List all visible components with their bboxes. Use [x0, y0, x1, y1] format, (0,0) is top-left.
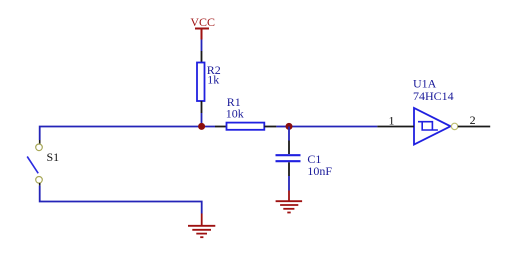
svg-text:S1: S1	[47, 150, 60, 164]
svg-text:VCC: VCC	[190, 15, 215, 29]
svg-text:1k: 1k	[207, 73, 219, 87]
wire switch top to node A	[40, 127, 215, 141]
svg-text:10k: 10k	[226, 106, 244, 120]
svg-text:1: 1	[389, 113, 395, 127]
svg-text:2: 2	[470, 113, 476, 127]
wire VCC to R2 pin	[201, 40, 203, 52]
svg-text:74HC14: 74HC14	[413, 89, 454, 103]
wire R2 to node A	[201, 113, 203, 127]
op-amp U1A (74HC14 schmitt inverter)	[414, 108, 458, 145]
wire R1 to node B	[276, 126, 289, 128]
resistor R2	[197, 51, 205, 113]
wire switch bottom to ground	[40, 186, 202, 214]
power symbol VCC	[190, 15, 215, 40]
wire node B to U1A input pin	[289, 126, 377, 128]
svg-text:10nF: 10nF	[307, 164, 332, 178]
wire C1 to ground	[288, 176, 290, 191]
resistor R1	[215, 123, 276, 130]
ground under C1	[276, 191, 303, 213]
switch S1	[27, 140, 42, 186]
svg-text:U1A: U1A	[413, 76, 437, 90]
junction node B	[286, 123, 293, 130]
wire node B down to C1	[288, 127, 290, 141]
junction node A	[198, 123, 205, 130]
ground under switch wire	[188, 214, 215, 238]
capacitor C1	[276, 141, 301, 177]
pin 1 line (U1A input)	[377, 126, 414, 128]
pin 2 line (U1A output)	[458, 126, 490, 128]
